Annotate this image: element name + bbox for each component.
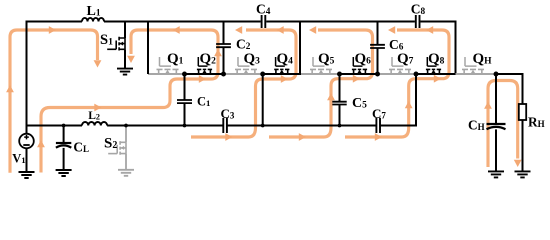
- svg-text:L2: L2: [88, 110, 100, 122]
